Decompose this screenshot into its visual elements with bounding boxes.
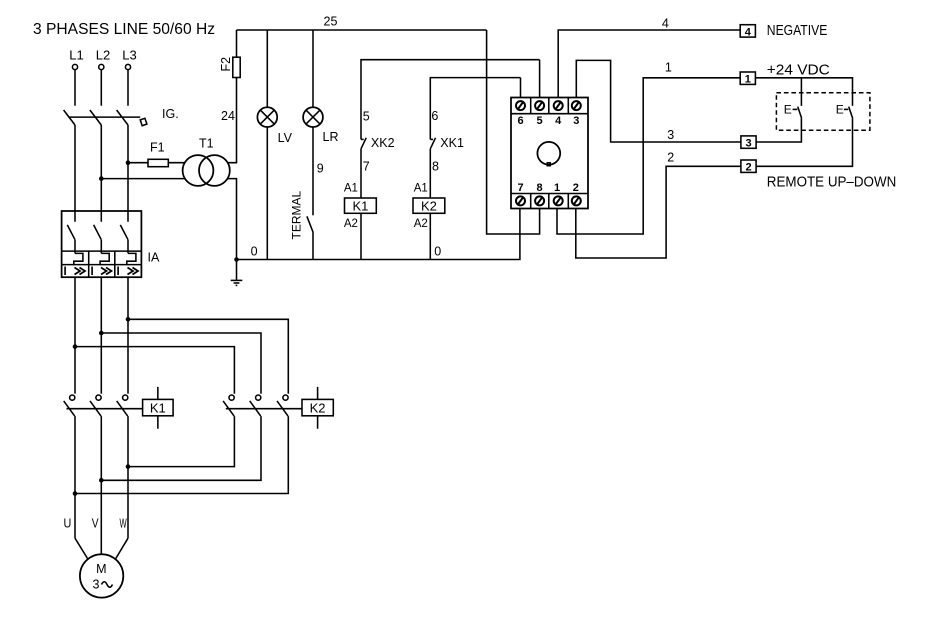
node L1 lower crossover — [73, 491, 78, 496]
wire XK2 to K1 coil — [360, 149, 362, 198]
wire K2 pole1 bottom to L3 — [128, 416, 234, 467]
svg-text:0: 0 — [251, 245, 258, 259]
wire terminal 1 to connector 1 — [557, 78, 740, 234]
connector pin 3 — [741, 136, 756, 150]
wire F1 to transformer — [128, 162, 185, 164]
wire terminal 2 to connector 2 — [576, 166, 741, 258]
wire terminal 6 up — [520, 78, 522, 98]
contactor K2 box — [302, 387, 333, 429]
wire K2 coil to 0 rail — [429, 213, 431, 259]
wire LV branch bottom — [266, 127, 268, 260]
svg-text:XK1: XK1 — [440, 136, 464, 150]
contactor K1 box — [143, 387, 174, 429]
wire K1 pole2 lower — [100, 416, 102, 554]
svg-text:6: 6 — [431, 109, 438, 123]
svg-text:5: 5 — [537, 115, 543, 127]
wire XK2 branch top — [361, 60, 540, 140]
svg-text:LR: LR — [323, 130, 339, 144]
dashed enclosure remote pendant — [776, 93, 870, 131]
contact XK2 — [361, 136, 395, 150]
wire L2 to K2 pole2 top — [101, 333, 261, 394]
wire LR to thermal contact — [312, 127, 314, 215]
wire L1 top — [74, 70, 76, 106]
wire K2 pole2 bottom to L2 — [101, 416, 261, 480]
svg-text:E: E — [836, 103, 844, 117]
svg-text:9: 9 — [317, 162, 324, 176]
svg-text:0: 0 — [434, 245, 441, 259]
contact XK1 — [430, 136, 464, 150]
svg-text:I: I — [117, 266, 120, 278]
svg-text:IG.: IG. — [162, 107, 179, 121]
wire connector 1 to switches — [755, 78, 852, 106]
svg-text:4: 4 — [555, 115, 562, 127]
svg-text:I: I — [64, 266, 67, 278]
node L3 upper crossover — [126, 317, 131, 322]
wire XK1 branch top — [430, 78, 520, 140]
svg-text:+24 VDC: +24 VDC — [767, 63, 830, 79]
node 0 rail ground junction — [234, 257, 239, 262]
wire K1 pole1 lower — [74, 416, 76, 538]
connector pin 1 — [740, 72, 755, 86]
wire transformer secondary top to F2 — [228, 78, 237, 163]
svg-text:K2: K2 — [421, 199, 437, 214]
wire U lead to motor — [75, 538, 88, 558]
wire K2 pole3 bottom to L1 — [75, 416, 288, 493]
wire transformer secondary bottom to 0 rail — [228, 179, 237, 260]
wire XK1 to K2 coil — [429, 149, 431, 198]
svg-text:5: 5 — [363, 110, 370, 124]
svg-text:M: M — [96, 562, 106, 576]
svg-text:24: 24 — [221, 109, 235, 123]
wire thermal to 0 rail — [312, 232, 314, 260]
svg-text:3: 3 — [93, 578, 100, 592]
svg-text:L1: L1 — [69, 48, 83, 63]
circuit breaker IA — [62, 211, 160, 278]
wire E1 drop — [800, 78, 802, 106]
svg-text:V: V — [92, 516, 99, 531]
contactor K2 contacts — [223, 395, 302, 416]
svg-text:NEGATIVE: NEGATIVE — [767, 23, 828, 39]
svg-text:2: 2 — [573, 182, 579, 194]
svg-text:K1: K1 — [352, 199, 368, 214]
svg-text:6: 6 — [517, 115, 523, 127]
svg-text:2: 2 — [745, 162, 751, 174]
wire terminal 5 up — [539, 60, 541, 98]
wire K1 pole3 lower — [127, 416, 129, 538]
wire L2 mid — [100, 125, 102, 211]
svg-text:7: 7 — [517, 182, 523, 194]
svg-text:8: 8 — [432, 159, 439, 173]
svg-text:3 PHASES LINE 50/60 Hz: 3 PHASES LINE 50/60 Hz — [33, 21, 215, 38]
terminal L1 — [69, 48, 83, 70]
terminal L2 — [96, 48, 110, 70]
fuse F2 — [219, 30, 240, 78]
wire 25 rail to terminal 8 — [487, 30, 540, 234]
svg-text:K1: K1 — [150, 401, 166, 416]
svg-text:L3: L3 — [122, 48, 136, 63]
wire K1 coil to 0 rail — [360, 213, 362, 259]
svg-text:U: U — [64, 516, 72, 531]
fuse F1 — [148, 141, 168, 167]
svg-text:25: 25 — [324, 15, 338, 29]
svg-text:1: 1 — [665, 61, 672, 75]
svg-text:3: 3 — [573, 115, 579, 127]
svg-text:4: 4 — [745, 26, 752, 38]
node L2 lower crossover — [99, 478, 104, 483]
svg-text:4: 4 — [662, 17, 669, 31]
disconnect switch IG — [64, 107, 179, 126]
thermal contact TERMAL — [290, 191, 313, 240]
wire 0 rail — [237, 209, 520, 260]
transformer T1 — [183, 137, 230, 186]
connector pin 4 — [740, 25, 755, 39]
lamp LV — [257, 107, 292, 145]
connector pin 2 — [741, 160, 756, 174]
svg-text:F1: F1 — [150, 141, 165, 155]
svg-text:A2: A2 — [344, 218, 358, 230]
svg-text:8: 8 — [537, 182, 543, 194]
switch E2 — [836, 103, 853, 119]
wire L3 to K2 pole3 top — [128, 319, 288, 393]
svg-text:REMOTE UP–DOWN: REMOTE UP–DOWN — [767, 175, 897, 191]
wire L1 to K2 pole1 top — [75, 347, 234, 394]
svg-text:A1: A1 — [414, 183, 428, 195]
wire L1 lower — [74, 277, 76, 394]
svg-text:W: W — [120, 516, 128, 531]
contactor K1 contacts — [64, 395, 143, 416]
wire W lead to motor — [116, 538, 128, 558]
svg-text:XK2: XK2 — [371, 136, 395, 150]
wire 25 rail — [237, 29, 487, 31]
motor M — [80, 554, 123, 597]
wire terminal 4 to connector 4 — [558, 30, 740, 98]
svg-text:3: 3 — [745, 138, 751, 150]
svg-text:A1: A1 — [344, 183, 358, 195]
wire L1 mid — [74, 125, 76, 211]
ground — [231, 260, 243, 286]
switch E1 — [784, 103, 802, 119]
svg-text:E: E — [784, 103, 792, 117]
wire LR branch top — [312, 30, 314, 107]
node L1 upper crossover — [73, 344, 78, 349]
svg-text:T1: T1 — [199, 137, 214, 151]
svg-text:7: 7 — [363, 159, 370, 173]
wire E2 to connector 2 — [756, 118, 853, 166]
svg-text:I: I — [91, 266, 94, 278]
svg-text:IA: IA — [148, 251, 160, 265]
svg-text:3: 3 — [667, 128, 674, 142]
wire LV branch top — [266, 30, 268, 107]
wire L3 top — [127, 70, 129, 106]
wire L3 mid — [127, 125, 129, 211]
node L2 upper crossover — [99, 331, 104, 336]
svg-text:L2: L2 — [96, 48, 110, 63]
svg-text:TERMAL: TERMAL — [290, 191, 304, 240]
svg-text:K2: K2 — [310, 401, 326, 416]
svg-text:LV: LV — [278, 131, 293, 145]
wire L3 lower — [127, 277, 129, 394]
wire E1 to connector 3 — [756, 118, 802, 142]
wire L2 lower — [100, 277, 102, 394]
wire L2 to transformer — [101, 178, 185, 180]
svg-text:1: 1 — [745, 74, 751, 86]
svg-text:A2: A2 — [414, 218, 428, 230]
svg-text:F2: F2 — [219, 57, 233, 72]
lamp LR — [303, 107, 338, 144]
node L3 lower crossover — [126, 464, 131, 469]
wire terminal 3 to connector 3 — [576, 60, 741, 142]
terminal L3 — [122, 48, 136, 70]
coil K1 — [345, 198, 377, 214]
node L2-T1 junction — [99, 176, 104, 181]
relay module U1 — [511, 98, 588, 209]
svg-text:1: 1 — [554, 182, 560, 194]
svg-text:2: 2 — [667, 151, 674, 165]
node L3-F1 junction — [126, 160, 131, 165]
wire L2 top — [100, 70, 102, 106]
coil K2 — [413, 198, 445, 214]
